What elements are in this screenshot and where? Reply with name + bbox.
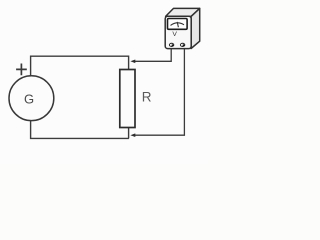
generator G circle	[9, 76, 54, 121]
arrowhead at resistor bottom junction	[130, 133, 135, 137]
wire: voltmeter right terminal down and to resistor bottom junction (with arrow)	[134, 47, 184, 136]
wire: resistor bottom lead	[128, 127, 130, 138]
voltmeter side face	[191, 8, 200, 48]
voltmeter front face	[165, 16, 191, 48]
wire: voltmeter left terminal to resistor top (with arrow)	[134, 47, 171, 62]
svg-text:G: G	[24, 92, 34, 107]
voltmeter U1: 3D box top face	[166, 8, 200, 16]
svg-text:R: R	[142, 89, 152, 104]
wire: generator top lead up and across to resistor top	[31, 56, 129, 76]
arrowhead at resistor top junction	[130, 60, 135, 64]
plus polarity sign	[16, 64, 27, 76]
meter scale arc	[171, 23, 185, 26]
meter needle	[177, 22, 178, 27]
voltmeter display window	[168, 19, 188, 30]
resistor R (rectangle)	[120, 70, 135, 128]
svg-text:V: V	[172, 31, 177, 38]
wire: generator bottom lead down and across to resistor bottom junction	[31, 120, 129, 138]
voltmeter right terminal	[180, 43, 184, 46]
voltmeter left terminal	[169, 43, 173, 46]
